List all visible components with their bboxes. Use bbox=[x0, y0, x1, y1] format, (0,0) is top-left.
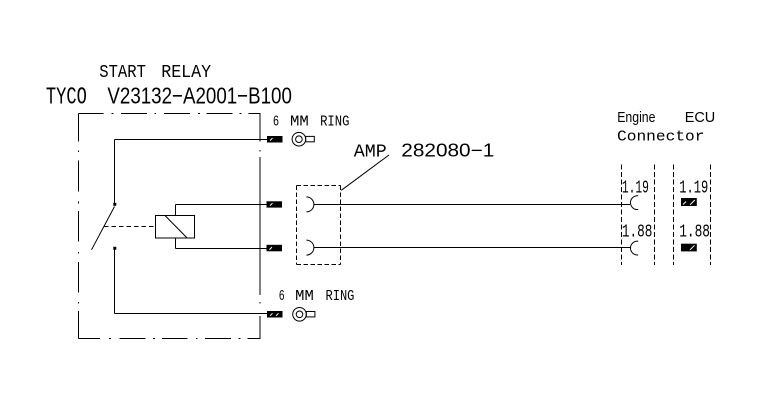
svg-text:282080−1: 282080−1 bbox=[401, 140, 494, 161]
svg-text:RING: RING bbox=[326, 289, 355, 305]
svg-text:1.19: 1.19 bbox=[622, 178, 649, 199]
svg-text:V23132−A2001−B100: V23132−A2001−B100 bbox=[107, 83, 292, 109]
svg-text:Engine: Engine bbox=[617, 110, 655, 126]
svg-text:RING: RING bbox=[320, 115, 349, 131]
svg-text:6: 6 bbox=[279, 289, 285, 305]
svg-text:TYCO: TYCO bbox=[46, 85, 87, 112]
svg-text:1.88: 1.88 bbox=[679, 221, 710, 242]
svg-text:Connector: Connector bbox=[617, 130, 705, 146]
svg-text:6: 6 bbox=[273, 115, 279, 131]
svg-text:START: START bbox=[99, 62, 146, 83]
svg-text:MM: MM bbox=[295, 289, 314, 305]
svg-text:MM: MM bbox=[290, 115, 309, 131]
svg-text:AMP: AMP bbox=[354, 142, 387, 163]
svg-text:1.88: 1.88 bbox=[622, 221, 653, 242]
svg-text:RELAY: RELAY bbox=[161, 62, 211, 83]
svg-text:ECU: ECU bbox=[685, 110, 716, 126]
svg-text:1.19: 1.19 bbox=[679, 178, 708, 199]
